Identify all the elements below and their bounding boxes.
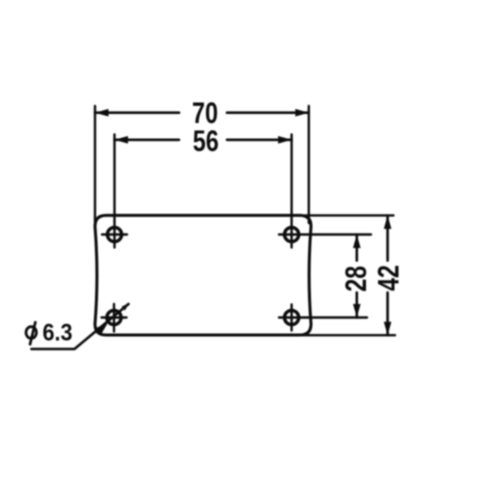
42 dim arrow down xyxy=(384,322,392,336)
hole top-right circle xyxy=(285,227,299,241)
diameter label 6.3 xyxy=(26,321,36,345)
70 dimension line xyxy=(95,111,179,114)
leader arrowhead at hole xyxy=(95,324,108,336)
phi symbol stem xyxy=(30,321,36,345)
28 dim arrow up xyxy=(353,235,361,249)
56 dim arrow right xyxy=(278,136,292,144)
hole top-right crosshair vertical + 56 extension line xyxy=(290,135,292,248)
28 dim arrow down xyxy=(353,304,361,318)
hole bottom-left crosshair horizontal xyxy=(102,316,127,318)
70 left extension line xyxy=(94,106,96,222)
phi symbol ellipse xyxy=(26,327,36,339)
leader line for dia 6.3 xyxy=(32,304,129,349)
42 bottom extension line xyxy=(303,334,395,336)
hole bottom-left circle xyxy=(107,310,121,324)
hole top-right crosshair horizontal + 28 top extension line xyxy=(279,233,371,235)
42 top extension line xyxy=(305,214,394,216)
hole bottom-right circle xyxy=(285,310,299,324)
56 dim arrow left xyxy=(115,136,129,144)
42 dimension line xyxy=(386,216,389,261)
plate outline xyxy=(95,215,311,335)
svg-text:6.3: 6.3 xyxy=(43,318,73,346)
hole top-left crosshair vertical + 56 extension line xyxy=(113,135,115,248)
hole bottom-left crosshair vertical xyxy=(113,304,115,332)
hole bottom-right crosshair vertical xyxy=(290,305,292,331)
70 dim arrow left xyxy=(95,109,109,117)
28 dimension line xyxy=(355,235,358,261)
56 dimension line xyxy=(115,139,180,142)
svg-text:28: 28 xyxy=(339,266,372,292)
hole bottom-right crosshair horizontal + 28 bottom extension line xyxy=(279,316,367,318)
hole top-left crosshair horizontal xyxy=(102,233,127,235)
svg-text:42: 42 xyxy=(372,265,405,291)
svg-text:56: 56 xyxy=(193,124,219,157)
hole top-left circle xyxy=(107,227,121,241)
70 dim arrow right xyxy=(295,109,309,117)
leader end barb xyxy=(122,303,129,310)
70 right extension line xyxy=(308,106,310,223)
42 dim arrow up xyxy=(384,215,392,229)
